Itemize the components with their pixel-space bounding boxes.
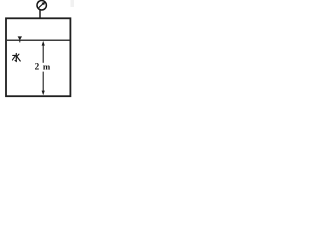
pressure gauge body [37,1,46,10]
scan smudge top-right [71,0,75,7]
gauge needle [39,2,46,8]
background [0,0,78,103]
gauge stem wire [39,10,41,19]
gauge zero tick [38,1,39,2]
svg-text:m: m [43,62,51,72]
tank [6,18,70,96]
water surface line [7,39,70,41]
label 水 (water) [12,53,20,61]
dimension line 2 m : lower shaft with down arrow [42,72,45,96]
dimension line 2 m : upper shaft with up arrow [42,41,45,63]
water surface marker (nabla) [18,36,22,42]
svg-text:2: 2 [35,62,40,72]
